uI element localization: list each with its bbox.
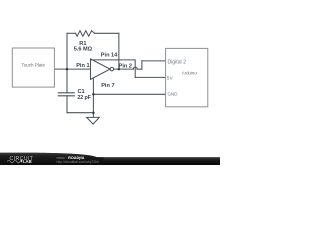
wire: top feedback left segment xyxy=(67,32,76,34)
wire: bottom rail to ground node xyxy=(67,112,93,114)
junction output node xyxy=(118,68,121,71)
touch plate box xyxy=(12,48,54,87)
wire: capacitor to bottom rail xyxy=(66,96,68,113)
svg-text:22 pF: 22 pF xyxy=(77,95,91,101)
svg-text:Pin 2: Pin 2 xyxy=(119,63,132,69)
wire: to arduino Digital 2 xyxy=(142,60,166,62)
wire: gate output segment with hop xyxy=(114,68,134,70)
svg-text:Pin 1: Pin 1 xyxy=(76,63,89,69)
svg-text:Arduino: Arduino xyxy=(182,70,198,75)
wire: pin14 VCC horizontal xyxy=(91,59,136,61)
wire: node A vertical up to feedback xyxy=(66,33,68,69)
svg-text:Pin 14: Pin 14 xyxy=(101,53,118,59)
resistor R1 xyxy=(76,31,95,37)
capacitor C1 bottom plate xyxy=(58,95,74,97)
ground xyxy=(87,117,100,124)
watermark badge xyxy=(0,153,104,165)
svg-text:5.6 MΩ: 5.6 MΩ xyxy=(74,46,93,52)
inverter U1 triangle xyxy=(91,59,111,80)
arduino box xyxy=(166,48,208,106)
svg-text:5V: 5V xyxy=(167,75,174,81)
svg-text:GND: GND xyxy=(168,92,179,97)
logo squiggle xyxy=(7,160,20,163)
capacitor C1 top plate xyxy=(58,92,74,94)
svg-text:http://circuitlab.com/c/rq72bh: http://circuitlab.com/c/rq72bh xyxy=(57,160,99,164)
junction node A xyxy=(66,68,69,71)
svg-text:LAB: LAB xyxy=(23,159,32,164)
svg-text:Digital 2: Digital 2 xyxy=(168,60,187,66)
wire: node A down to capacitor xyxy=(66,69,68,92)
svg-text:Pin 7: Pin 7 xyxy=(101,83,114,89)
wire: output after hop xyxy=(137,68,142,70)
wire: pin7 down to ground xyxy=(92,78,94,118)
wire: ground net to arduino GND xyxy=(93,93,165,95)
wire: feedback drop to output xyxy=(118,33,120,69)
svg-text:Touch Plate: Touch Plate xyxy=(22,62,46,67)
junction ground-rail node xyxy=(92,93,95,96)
watermark footer strip xyxy=(0,157,220,165)
wire: output rise to digital2 xyxy=(141,61,143,69)
wire: to arduino 5V xyxy=(135,76,165,78)
inverter bubble xyxy=(110,67,114,71)
junction cap-rail node xyxy=(92,111,95,114)
logo spark icon xyxy=(21,160,23,163)
wire: touch plate to gate input xyxy=(54,68,90,70)
wire: VCC drop xyxy=(134,60,136,78)
wire hop over 5V drop xyxy=(133,67,137,69)
wire: top feedback right segment xyxy=(94,32,118,34)
